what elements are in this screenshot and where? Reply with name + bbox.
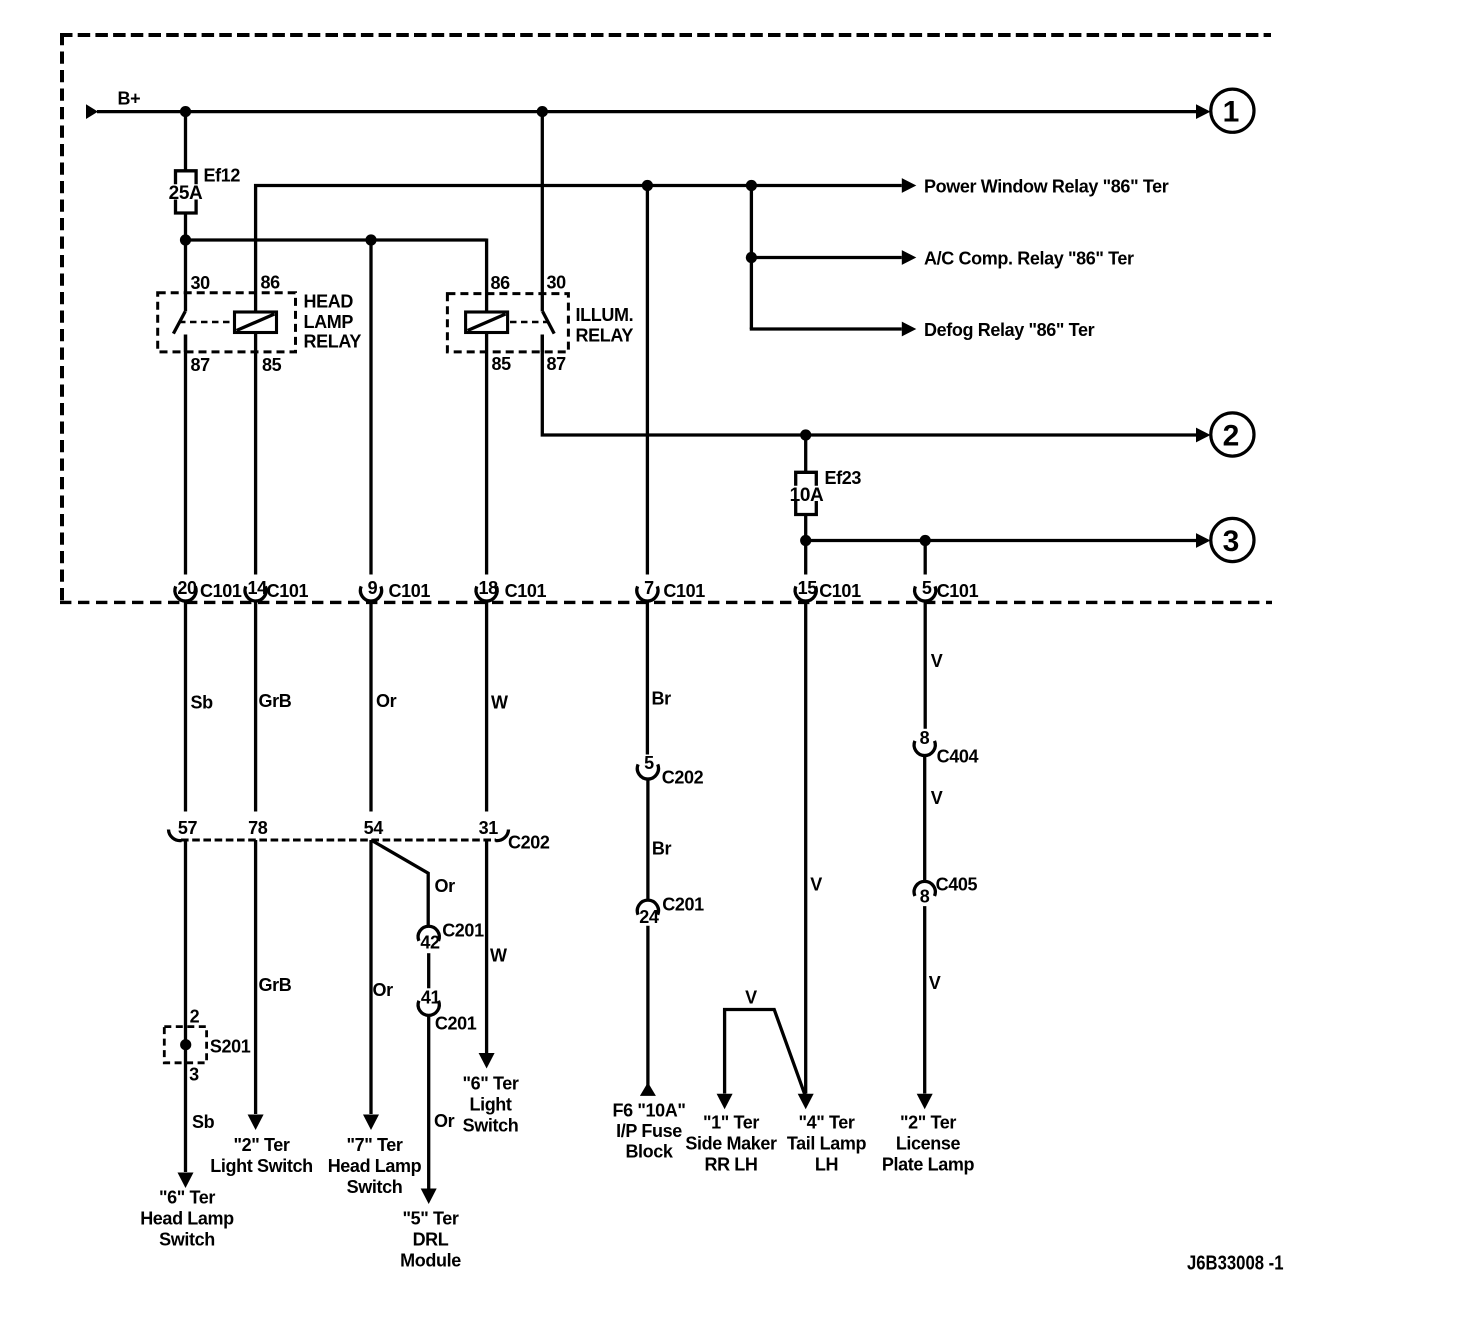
wire Or C202-54 down to head lamp switch: [369, 840, 372, 1114]
page connector circle 2: [1211, 413, 1254, 456]
illum relay switch blade 30-87: [543, 312, 555, 334]
connector C101 pin 15: [795, 586, 816, 601]
arrow to light switch ter 6: [479, 1053, 495, 1069]
wire to defog relay arrow: [751, 328, 901, 330]
wire V C101-15 down to tail lamp: [804, 601, 807, 1094]
svg-text:RELAY: RELAY: [576, 325, 634, 345]
svg-text:41: 41: [421, 988, 441, 1008]
splice S201 dot: [180, 1039, 191, 1050]
connector C101 pin 9: [360, 586, 381, 601]
svg-text:Switch: Switch: [347, 1177, 403, 1197]
page connector circle 1: [1211, 89, 1254, 132]
wire branch down to defog corner: [750, 186, 753, 330]
junction head lamp switch feed (pin 9 wire): [365, 234, 376, 245]
svg-text:25A: 25A: [169, 183, 203, 204]
junction Ef12 output: [180, 234, 191, 245]
svg-text:V: V: [931, 651, 943, 671]
wire GrB C101-14 to C202-78: [254, 601, 257, 812]
svg-text:Power Window Relay "86" Ter: Power Window Relay "86" Ter: [924, 176, 1169, 196]
node B+ feed arrow: [86, 104, 98, 119]
page connector circle 3: [1211, 518, 1254, 561]
svg-text:F6 "10A": F6 "10A": [612, 1101, 685, 1121]
wire Br C202-5 down to C201-24: [646, 779, 649, 901]
wire junction down to C101 pin 9: [369, 240, 372, 575]
wire B+ down to illum relay 30: [541, 112, 544, 312]
junction A/C comp relay branch: [746, 252, 757, 263]
connector C202 pin 5: [637, 764, 658, 779]
wire V down to license plate lamp: [923, 906, 926, 1093]
junction B+/illum relay 30: [537, 106, 548, 117]
connector C404 pin 8: [914, 741, 935, 756]
wire line 3 to page connector 3: [806, 539, 1197, 542]
svg-text:Tail Lamp: Tail Lamp: [787, 1134, 867, 1154]
wire head lamp relay 85 down to C101 pin 14: [254, 333, 257, 575]
svg-text:C201: C201: [442, 921, 484, 941]
svg-text:2: 2: [1223, 419, 1240, 452]
svg-text:87: 87: [547, 354, 567, 374]
wire Br down to fuse block: [646, 926, 649, 1094]
svg-text:3: 3: [1223, 525, 1240, 558]
wire B+ down to fuse Ef12: [184, 112, 187, 170]
wire illum relay 87 down and right to page connector 2: [542, 335, 1196, 436]
svg-text:C101: C101: [663, 581, 705, 601]
wire illum relay 85 down to C101 pin 18: [485, 333, 488, 575]
junction line3 left: [800, 535, 811, 546]
svg-text:30: 30: [191, 273, 211, 293]
connector C201 pin 41: [418, 1001, 439, 1016]
svg-text:86: 86: [491, 273, 511, 293]
junction line2/Ef23: [800, 429, 811, 440]
svg-text:RR LH: RR LH: [704, 1155, 757, 1175]
svg-text:54: 54: [364, 818, 384, 838]
svg-text:V: V: [929, 973, 941, 993]
svg-text:"2" Ter: "2" Ter: [233, 1135, 289, 1155]
svg-text:Or: Or: [376, 691, 397, 711]
arrow from I/P fuse block F6: [640, 1082, 656, 1096]
svg-text:V: V: [810, 875, 822, 895]
connector C101 pin 14: [245, 586, 266, 601]
svg-text:31: 31: [479, 818, 499, 838]
svg-text:C101: C101: [505, 581, 547, 601]
svg-text:C101: C101: [200, 581, 242, 601]
svg-text:Light Switch: Light Switch: [210, 1156, 312, 1176]
svg-text:Or: Or: [434, 1111, 455, 1131]
svg-text:LAMP: LAMP: [304, 312, 354, 332]
svg-text:2: 2: [190, 1007, 200, 1027]
connector C201 pin 42: [418, 926, 439, 941]
arrow to DRL module ter 5: [421, 1189, 437, 1205]
svg-text:3: 3: [189, 1065, 199, 1085]
svg-text:10A: 10A: [790, 485, 824, 506]
svg-text:C101: C101: [389, 581, 431, 601]
svg-text:Switch: Switch: [463, 1116, 519, 1136]
wire Sb C101-20 to C202-57: [184, 601, 187, 812]
svg-text:Head Lamp: Head Lamp: [140, 1209, 234, 1229]
junction B+/Ef12: [180, 106, 191, 117]
illum relay switch lower stub: [541, 335, 544, 353]
wire head lamp relay 86 feed line: [256, 186, 902, 313]
svg-text:Br: Br: [652, 689, 672, 709]
svg-text:C201: C201: [662, 895, 704, 915]
svg-text:18: 18: [478, 578, 498, 598]
svg-text:C101: C101: [819, 581, 861, 601]
arrow to head lamp switch ter 7: [363, 1115, 379, 1131]
relay K2 ILLUM. RELAY dashed box: [447, 294, 568, 352]
svg-text:C405: C405: [936, 875, 978, 895]
svg-text:Head Lamp: Head Lamp: [328, 1156, 422, 1176]
svg-text:Module: Module: [400, 1251, 461, 1271]
head lamp relay coil: [235, 312, 277, 333]
svg-text:78: 78: [248, 818, 268, 838]
svg-text:30: 30: [547, 273, 567, 293]
arrow to page connector 1: [1196, 104, 1211, 119]
splice S201 dashed box: [164, 1027, 206, 1063]
wire Ef12 output bus to illum relay 86: [186, 238, 487, 241]
svg-text:Sb: Sb: [192, 1112, 215, 1132]
fuse Ef23: [796, 472, 817, 486]
svg-text:Ef23: Ef23: [825, 468, 862, 488]
svg-text:7: 7: [644, 578, 654, 598]
connector C201 pin 24: [637, 900, 658, 915]
svg-text:C101: C101: [937, 581, 979, 601]
svg-text:"2" Ter: "2" Ter: [900, 1113, 956, 1133]
svg-text:24: 24: [639, 907, 659, 927]
svg-text:A/C Comp. Relay "86" Ter: A/C Comp. Relay "86" Ter: [924, 248, 1134, 268]
svg-text:DRL: DRL: [413, 1230, 449, 1250]
wire B+ bus horizontal: [97, 110, 1197, 113]
svg-text:Defog Relay "86" Ter: Defog Relay "86" Ter: [924, 320, 1095, 340]
wire Br C101-7 down to C202-5: [646, 601, 649, 755]
arrow to page connector 3: [1196, 533, 1211, 548]
svg-text:J6B33008 -1: J6B33008 -1: [1187, 1253, 1284, 1275]
svg-text:V: V: [931, 788, 943, 808]
arrow to Power Window Relay: [902, 178, 917, 193]
svg-text:Side Maker: Side Maker: [685, 1134, 777, 1154]
svg-text:HEAD: HEAD: [304, 292, 354, 312]
svg-text:14: 14: [247, 578, 267, 598]
fuse Ef12: [176, 171, 197, 185]
svg-text:85: 85: [492, 354, 512, 374]
svg-text:42: 42: [420, 933, 440, 953]
svg-text:W: W: [491, 693, 508, 713]
svg-text:5: 5: [922, 578, 932, 598]
illum relay coil: [466, 312, 508, 333]
wire junction down to fuse Ef23: [804, 435, 807, 472]
svg-text:8: 8: [920, 728, 930, 748]
wire Or down to DRL module: [427, 1015, 430, 1188]
wire junction down to C101 pin 5: [924, 541, 927, 575]
svg-text:C202: C202: [508, 833, 550, 853]
svg-text:C201: C201: [435, 1014, 477, 1034]
wire to A/C comp relay arrow: [751, 256, 901, 259]
svg-text:15: 15: [798, 578, 818, 598]
junction feed/pin7 wire: [642, 180, 653, 191]
svg-text:"1" Ter: "1" Ter: [703, 1113, 759, 1133]
connector C405 pin 8: [914, 881, 935, 896]
svg-text:Block: Block: [625, 1141, 673, 1161]
svg-text:85: 85: [262, 355, 282, 375]
wire V C101-5 down to C404: [924, 601, 927, 729]
wire down to illum relay coil 86: [485, 239, 488, 313]
illum relay actuating dashed link: [510, 321, 548, 324]
svg-text:20: 20: [177, 578, 197, 598]
svg-text:V: V: [745, 988, 757, 1008]
svg-text:Switch: Switch: [159, 1230, 215, 1250]
wire fuse Ef23 to line 3 junction: [804, 515, 807, 541]
svg-text:W: W: [490, 946, 507, 966]
svg-text:Br: Br: [652, 839, 672, 859]
svg-text:GrB: GrB: [259, 691, 292, 711]
connector C202 right end hook: [496, 830, 509, 841]
svg-text:Sb: Sb: [191, 693, 214, 713]
relay K1 HEAD LAMP RELAY dashed box: [158, 293, 296, 352]
arrow to side maker lamp: [717, 1094, 733, 1110]
svg-text:"5" Ter: "5" Ter: [402, 1209, 458, 1229]
connector C202 dashed body: [181, 839, 496, 842]
wire head lamp relay 87 down to C101 pin 20: [184, 335, 187, 575]
head lamp relay switch lower stub: [184, 335, 187, 353]
wire V branch to side maker: diagonal: [725, 1010, 806, 1098]
svg-text:Or: Or: [435, 876, 456, 896]
connector C202 left end hook: [169, 830, 182, 841]
connector C101 pin 5: [915, 586, 936, 601]
wire Ef12 junction down to head lamp relay 30: [184, 240, 187, 312]
head lamp relay switch blade 30-87: [173, 312, 185, 334]
connector C101 pin 20: [175, 586, 196, 601]
svg-text:B+: B+: [118, 89, 141, 109]
svg-text:ILLUM.: ILLUM.: [576, 305, 634, 325]
svg-text:8: 8: [920, 887, 930, 907]
svg-text:GrB: GrB: [259, 975, 292, 995]
junction line3/license lamp wire: [920, 535, 931, 546]
svg-text:"7" Ter: "7" Ter: [346, 1135, 402, 1155]
wire Sb C202-57 down to S201: [184, 840, 187, 1172]
connector C101 bulkhead dashed line: [60, 601, 1272, 604]
wire W C101-18 to C202-31: [485, 601, 488, 812]
arrow to page connector 2: [1196, 428, 1211, 443]
svg-text:I/P Fuse: I/P Fuse: [616, 1121, 682, 1141]
svg-text:"6" Ter: "6" Ter: [462, 1074, 518, 1094]
svg-text:S201: S201: [210, 1037, 251, 1057]
svg-text:RELAY: RELAY: [304, 332, 362, 352]
wire Or C101-9 to C202-54: [369, 601, 372, 812]
wire V C404 to C405: [923, 756, 926, 882]
wire Or branch C202-54 diagonal to DRL column: [371, 840, 428, 926]
svg-text:57: 57: [178, 818, 198, 838]
svg-text:Or: Or: [373, 980, 394, 1000]
wire fuse Ef12 to junction: [184, 213, 187, 240]
svg-text:87: 87: [191, 355, 211, 375]
junction feed/relay branch: [746, 180, 757, 191]
svg-text:LH: LH: [815, 1155, 838, 1175]
svg-text:Plate Lamp: Plate Lamp: [882, 1155, 975, 1175]
wire C201 42 to 41: [427, 953, 430, 988]
wire W C202-31 down to light switch ter 6: [485, 840, 488, 1053]
arrow to light switch ter 2: [248, 1115, 264, 1131]
harness boundary dashed border, left edge: [60, 33, 64, 602]
svg-text:1: 1: [1223, 96, 1240, 129]
svg-text:Ef12: Ef12: [204, 166, 241, 186]
svg-text:C202: C202: [662, 768, 704, 788]
svg-text:C101: C101: [267, 581, 309, 601]
connector C101 pin 7: [637, 586, 658, 601]
svg-text:"6" Ter: "6" Ter: [159, 1188, 215, 1208]
wire GrB C202-78 down to light switch: [254, 840, 257, 1114]
svg-text:Light: Light: [469, 1095, 511, 1115]
svg-text:9: 9: [368, 578, 378, 598]
svg-text:"4" Ter: "4" Ter: [798, 1113, 854, 1133]
svg-text:5: 5: [644, 753, 654, 773]
wire down to C101 pin 7: [646, 186, 649, 575]
svg-text:86: 86: [261, 273, 281, 293]
arrow to tail lamp LH: [798, 1094, 814, 1110]
wire junction down to C101 pin 15: [804, 541, 807, 575]
arrow to head lamp switch ter 6: [178, 1173, 194, 1189]
head lamp relay actuating dashed link: [179, 321, 234, 324]
svg-text:License: License: [896, 1134, 961, 1154]
connector C101 pin 18: [476, 586, 497, 601]
harness boundary dashed border, top edge: [60, 33, 1271, 37]
svg-text:C404: C404: [937, 747, 979, 767]
arrow to license plate lamp: [917, 1094, 933, 1110]
